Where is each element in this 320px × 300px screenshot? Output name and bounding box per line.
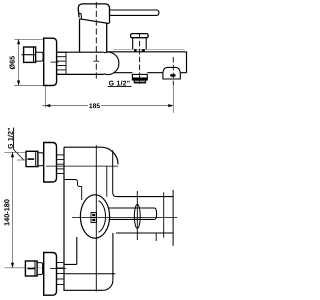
- axis tick lower connection: [50, 268, 66, 270]
- diverter feet: [134, 49, 145, 51]
- body tube (top view): [57, 52, 104, 74]
- ribs (upper, lower view): [57, 155, 65, 174]
- label underline: [108, 85, 132, 87]
- housing top edge: [107, 51, 187, 53]
- dimension 140-180 line: [12, 152, 14, 267]
- housing rear thin edge: [113, 48, 185, 50]
- eccentric union S3 (lower, lower view): [25, 261, 37, 276]
- center dash of union S2: [28, 158, 35, 160]
- axis line of upper connection: [46, 165, 118, 167]
- housing (lower view) top edge: [117, 196, 173, 198]
- body left edge: [63, 147, 65, 290]
- threaded connector ribs (top view): [57, 52, 66, 74]
- notch step: [64, 237, 77, 264]
- housing bottom edge: [116, 232, 173, 234]
- extension second line: [17, 159, 26, 161]
- base plate bottom edge: [63, 289, 103, 291]
- label underline (vertical): [13, 128, 15, 150]
- dimension Ø65 extension line top: [14, 38, 43, 40]
- label 185: [89, 103, 100, 108]
- eccentric union S2 (upper, lower view): [26, 151, 38, 166]
- base plate top line: [64, 273, 115, 275]
- arrow 185 left: [45, 104, 50, 107]
- housing right edge / spout center: [172, 190, 174, 246]
- arrow Ø65 bottom: [17, 81, 20, 86]
- label G 1/2 (top view): [109, 81, 130, 86]
- spout outlet dome: [163, 67, 180, 72]
- body tube rounded end arc: [104, 52, 119, 74]
- base plate right edge: [112, 233, 114, 280]
- shower outlet center line (dashed): [139, 33, 141, 84]
- label 140-180: [4, 199, 9, 225]
- dimension Ø65 extension line bottom: [14, 85, 43, 87]
- housing bottom edges: [113, 72, 186, 74]
- dimension 140-180 extension top: [4, 151, 26, 153]
- ribs (lower, lower view): [57, 263, 64, 285]
- knob bottom diagonal: [79, 19, 109, 24]
- inner column edge right: [106, 166, 108, 197]
- center tick of union S1: [22, 54, 36, 56]
- arrow Ø65 top: [17, 39, 20, 44]
- spout tube edge (lower view): [163, 192, 165, 237]
- inner step left: [64, 180, 82, 201]
- leader to fitting: [14, 150, 24, 161]
- shower outlet end ellipse: [134, 204, 140, 228]
- base plate corner arc: [103, 280, 113, 290]
- diverter knob (top hat) cap: [131, 34, 149, 38]
- arrow 140-180 top: [11, 152, 14, 157]
- hub detail: [91, 213, 97, 223]
- vertical center line (lower view): [95, 145, 97, 291]
- body outline (lower view): [64, 147, 118, 164]
- spout outlet skirt: [163, 73, 180, 79]
- stub below housing: [155, 233, 157, 241]
- wall flange F3 (lower, lower view): [44, 253, 57, 296]
- aerator mark: [170, 74, 175, 76]
- diverter legs: [133, 38, 147, 50]
- knob inner arc: [99, 201, 106, 233]
- dimension 185 line: [42, 105, 173, 107]
- label Ø65: [9, 56, 14, 69]
- spout center extension line: [172, 85, 174, 113]
- dimension 140-180 extension bottom: [4, 267, 25, 269]
- shower outlet center line (lower view): [136, 191, 138, 240]
- label G 1/2 (lower view, rotated): [8, 128, 13, 149]
- shower hose outlet (top view): [132, 74, 147, 82]
- dimension 185 extension line left: [44, 87, 46, 108]
- arrow 140-180 bottom: [11, 263, 14, 268]
- neck of union S3: [37, 263, 43, 275]
- spout center line (dashed): [172, 57, 174, 85]
- arrow 185 right: [168, 104, 173, 107]
- center line of cartridge (dashed): [95, 2, 97, 80]
- body right edge: [113, 150, 117, 196]
- neck of union S2: [38, 153, 44, 166]
- lever bar (lower view): [109, 208, 157, 219]
- lever bar (top view): [110, 10, 159, 15]
- knob left nub: [78, 13, 81, 19]
- center line through lower union (gray dashes): [27, 267, 43, 269]
- center dash of union S3: [28, 268, 35, 270]
- cartridge housing (top view): [80, 19, 107, 52]
- handle knob (top view): [78, 4, 109, 24]
- flange axis tick: [51, 61, 59, 63]
- neck of union S1: [36, 52, 43, 61]
- housing right edge: [186, 52, 188, 73]
- eccentric union S1 (top view): [24, 47, 36, 62]
- wall flange F1 (top view): [44, 38, 57, 85]
- wall flange F2 (upper, lower view): [44, 143, 57, 183]
- horizontal center line through knob: [72, 217, 177, 219]
- dimension Ø65 line: [18, 39, 20, 85]
- knob ellipse (lower view): [80, 195, 109, 238]
